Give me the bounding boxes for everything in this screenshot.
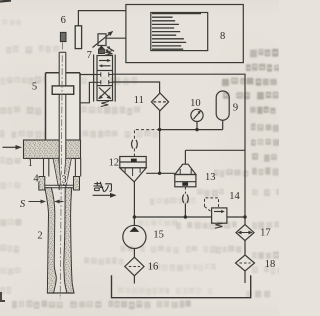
piston of cylinder 5 bbox=[52, 86, 73, 94]
guide slab bbox=[24, 140, 81, 158]
workpiece tube 2 bottom cap bbox=[47, 292, 74, 294]
valve 7 side rails bbox=[93, 55, 95, 102]
svg-text:18: 18 bbox=[265, 259, 276, 270]
workpiece tube 2 right wall bbox=[64, 188, 74, 293]
valve 7 section1 arrows bbox=[99, 60, 109, 62]
piston rod of cylinder 5 bbox=[59, 52, 66, 190]
sleeve wall right bbox=[75, 158, 80, 176]
pilot actuation arrows bbox=[106, 50, 113, 54]
pump 15 bbox=[133, 217, 135, 225]
svg-text:16: 16 bbox=[148, 262, 159, 273]
svg-text:13: 13 bbox=[205, 172, 216, 183]
funnel guide band left bbox=[53, 158, 61, 185]
junction dots bbox=[133, 128, 247, 219]
wire valve 13 to pump bus bbox=[184, 203, 186, 217]
hydraulic cylinder 5 body bbox=[46, 72, 81, 74]
filter 16 bbox=[125, 257, 144, 276]
valve 7 bottom spring bbox=[101, 102, 109, 107]
wire valve12/filter11 junction to valve 13 bbox=[146, 172, 175, 174]
gauge line bbox=[160, 129, 223, 131]
valve 7 section2 closed-center stubs bbox=[97, 72, 113, 84]
svg-text:15: 15 bbox=[153, 230, 164, 241]
valve 7 section3 cross arrows bbox=[99, 88, 111, 99]
wire valve7 right lower port to filter 11 bbox=[113, 82, 160, 93]
controller box 8 outer bbox=[126, 5, 243, 63]
svg-text:10: 10 bbox=[190, 98, 201, 109]
valve 7 top spring bbox=[105, 51, 112, 56]
cutter arrow bbox=[93, 194, 113, 196]
centerline bbox=[60, 43, 62, 300]
wire 17 to 18 bbox=[244, 240, 246, 255]
vent cylinder on machine top bbox=[75, 26, 81, 49]
wire pump to filter 16 bbox=[133, 249, 135, 258]
funnel guide band right bbox=[64, 158, 72, 185]
svg-text:2: 2 bbox=[37, 230, 42, 241]
feed arrow 1 bbox=[3, 146, 18, 148]
filter 11 bbox=[151, 93, 168, 111]
right bus lower bbox=[244, 217, 246, 225]
svg-text:7: 7 bbox=[87, 50, 92, 61]
svg-text:8: 8 bbox=[220, 31, 225, 42]
svg-text:3: 3 bbox=[61, 175, 66, 186]
svg-text:14: 14 bbox=[229, 191, 240, 202]
wire valve 12 to pump bus bbox=[133, 182, 135, 217]
wire valve7 left upper port to cylinder top bbox=[80, 74, 97, 76]
pilot orifice of valve 12 bbox=[132, 140, 133, 149]
pilot solenoid block of valve 7 bbox=[98, 46, 104, 49]
wire filter 11 down to junction bbox=[159, 111, 161, 174]
fill valve 12 bbox=[120, 157, 146, 168]
scan corner mark bbox=[0, 1, 11, 2]
relief valve 14 spring bbox=[215, 223, 223, 228]
wire 16 to tank bbox=[133, 276, 135, 284]
back-pressure valve 13 bbox=[184, 150, 186, 164]
stroke S arrow right bbox=[57, 201, 64, 203]
throttle valve (on valve 7 pilot) bbox=[98, 34, 106, 46]
throttle arrow bbox=[93, 33, 112, 48]
wire throttle to box 8 bbox=[106, 37, 126, 39]
svg-text:6: 6 bbox=[61, 15, 66, 26]
valve 7 body bbox=[97, 56, 113, 101]
collar block left bbox=[39, 177, 45, 191]
svg-text:5: 5 bbox=[32, 82, 37, 93]
collar block right bbox=[74, 177, 80, 191]
svg-text:11: 11 bbox=[134, 95, 144, 106]
workpiece tube 2 left wall bbox=[45, 188, 57, 293]
stroke S arrow left bbox=[29, 201, 43, 203]
pilot dashed wire to valve 12 bbox=[134, 130, 159, 140]
accumulator 9 bbox=[216, 91, 229, 120]
wire valve7 left lower port to cylinder bottom chamber bbox=[80, 82, 97, 103]
svg-text:12: 12 bbox=[109, 157, 120, 168]
svg-text:S: S bbox=[20, 199, 26, 210]
grinding head 6 bbox=[60, 32, 66, 41]
wire valve 13 top to right bus bbox=[185, 149, 245, 151]
cutter label 截刀 glyphs bbox=[93, 182, 111, 192]
filter 17 bbox=[236, 225, 254, 241]
tank bbox=[112, 275, 251, 297]
controller box 8 contact comb bbox=[152, 14, 201, 50]
filter 18 bbox=[236, 255, 255, 271]
wire valve7 right upper port to right bus bbox=[113, 74, 246, 217]
pressure gauge 10 bbox=[191, 109, 203, 121]
wire 18 to tank bbox=[244, 271, 246, 283]
svg-text:17: 17 bbox=[260, 228, 271, 239]
cutter edge line bbox=[45, 184, 74, 186]
hydraulic cylinder 5 interior bbox=[46, 73, 81, 140]
pump bus wire bbox=[134, 216, 211, 218]
svg-text:1: 1 bbox=[28, 158, 33, 169]
svg-text:4: 4 bbox=[33, 174, 39, 185]
wire from cylinder vent to controller box 8 bbox=[78, 11, 126, 26]
scan edge mark left bbox=[1, 292, 5, 301]
pilot orifice under valve 13 bbox=[184, 187, 186, 194]
svg-text:9: 9 bbox=[233, 103, 238, 114]
controller box 8 inner window bbox=[151, 13, 208, 51]
sleeve wall left bbox=[44, 158, 49, 176]
relief valve 14 bbox=[212, 208, 227, 223]
